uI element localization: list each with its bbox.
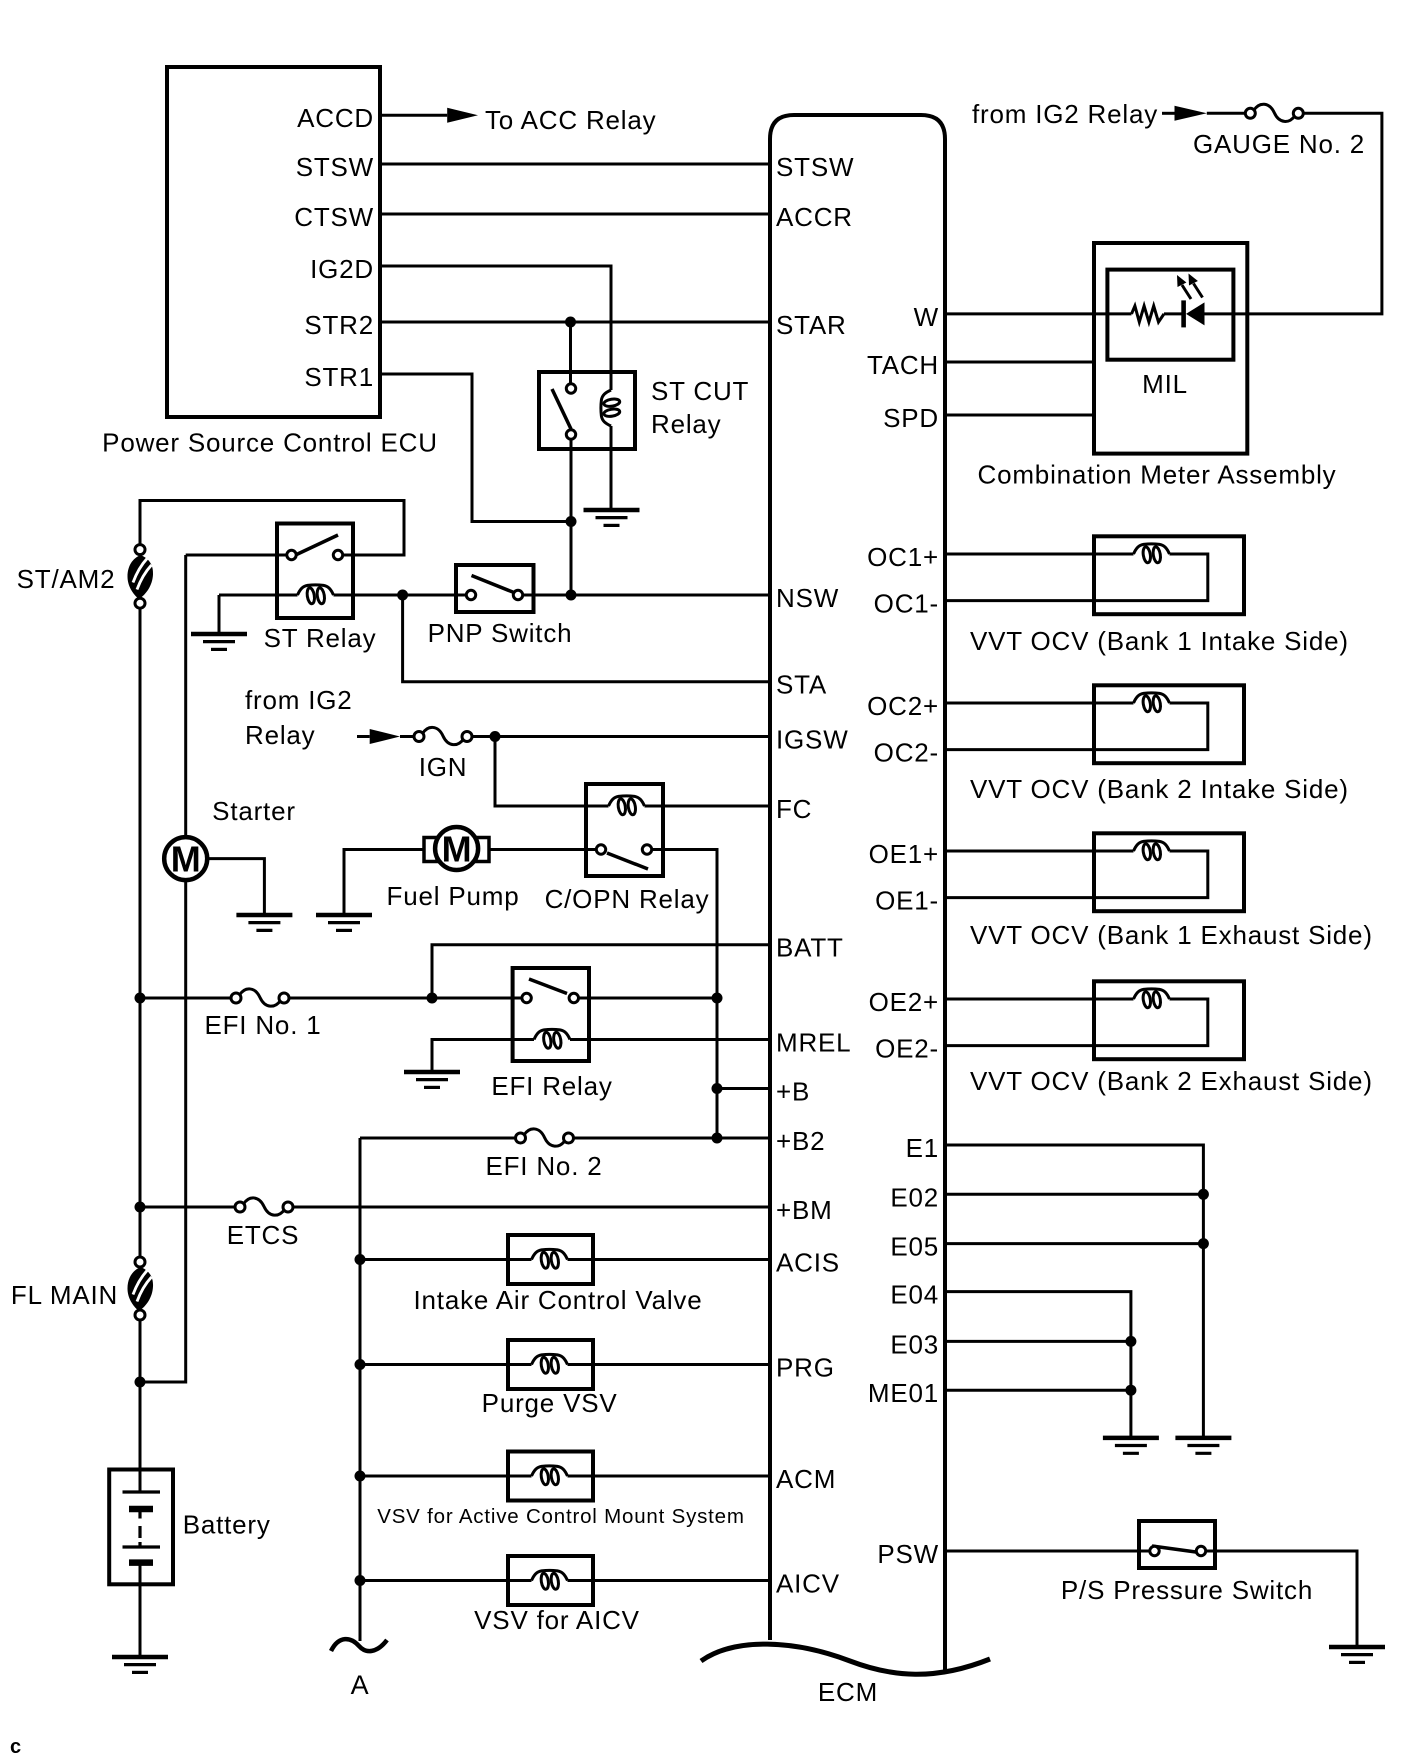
PNP switch contacts [466,576,522,600]
fuse EFI No.2 [516,1129,574,1146]
svg-text:VVT OCV (Bank 2 Intake Side): VVT OCV (Bank 2 Intake Side) [970,774,1349,804]
wire E03 [947,1340,1131,1343]
wire GAUGE fuse to MIL [1205,113,1382,314]
svg-text:BATT: BATT [776,933,844,963]
svg-text:ME01: ME01 [868,1378,939,1408]
wire C/OPN coil to FC [645,805,769,808]
wire ST/AM2 top loop to ST relay switch [140,501,404,556]
wire OE2 loop [947,999,1208,1046]
VVT OCV Bank1 Intake coil [1134,544,1170,563]
wire ACIS line [360,1258,532,1261]
wire main battery line lower [139,1320,142,1470]
wire PRG line [360,1363,532,1366]
Purge VSV coil [532,1354,568,1373]
wire IGSW node to C/OPN coil [495,737,609,807]
svg-text:TACH: TACH [867,350,939,380]
node EFI No.1 left [135,993,146,1004]
ground E1/E02/E05 [1175,1438,1231,1453]
wire ST CUT switch to NSW node [570,435,573,596]
P/S pressure switch box [1139,1521,1215,1568]
wire IGN arrow stub [357,735,370,738]
wire left vertical to battery node [140,555,186,1382]
ST relay coil [298,585,334,604]
svg-text:EFI No. 1: EFI No. 1 [204,1010,321,1040]
svg-text:ECM: ECM [818,1677,878,1707]
svg-text:VSV for AICV: VSV for AICV [474,1605,640,1635]
motor fuel pump M [424,827,489,870]
svg-text:ETCS: ETCS [227,1220,300,1250]
PNP switch box [456,565,534,612]
svg-text:C/OPN Relay: C/OPN Relay [545,884,710,914]
svg-text:EFI No. 2: EFI No. 2 [485,1151,602,1181]
Power Source Control ECU box [167,67,380,417]
MIL box [1107,270,1233,360]
wire E04 [947,1292,1131,1438]
wire node STR2 to ST CUT switch [569,322,572,389]
svg-text:from IG2: from IG2 [245,685,353,715]
svg-text:ACCR: ACCR [776,202,853,232]
wire arrow to GAUGE fuse [1207,112,1246,115]
node NSW junction [566,590,577,601]
ground battery [112,1657,168,1672]
svg-text:OC1+: OC1+ [867,542,939,572]
VVT OCV Bank2 Exhaust coil [1134,989,1170,1008]
wire IGSW line [472,735,768,738]
wire STR2 to STAR [382,321,768,324]
svg-text:PRG: PRG [776,1353,835,1383]
wire main battery line [139,608,142,1257]
svg-text:E05: E05 [890,1232,939,1262]
svg-text:OE2-: OE2- [875,1034,939,1064]
svg-text:Fuel Pump: Fuel Pump [387,881,520,911]
svg-text:STSW: STSW [296,152,374,182]
node ME01 junction [1125,1385,1136,1396]
VVT OCV Bank2 Exhaust box [1094,981,1244,1059]
wire fuel pump left to ground [344,850,424,914]
svg-text:MIL: MIL [1142,369,1188,399]
ground P/S switch [1329,1647,1385,1662]
wire BATT line [432,945,768,998]
svg-text:GAUGE No. 2: GAUGE No. 2 [1193,129,1365,159]
VVT OCV Bank1 Exhaust box [1094,833,1244,911]
wire ME01 [947,1389,1131,1392]
ECM bottom wavy break [701,1644,990,1674]
wire arrow to IGN fuse [400,735,414,738]
wire ST CUT coil to ground [610,426,613,508]
ECM box [770,115,945,1674]
svg-text:ST Relay: ST Relay [264,623,377,653]
node PRG junction [355,1359,366,1370]
svg-text:OC2-: OC2- [874,738,939,768]
SECTION:WIRES [140,113,1382,1655]
svg-text:To ACC Relay: To ACC Relay [485,105,656,135]
wire OC1 loop [947,554,1208,601]
P/S pressure switch contacts [1150,1546,1206,1556]
fuse EFI No.1 [231,989,289,1006]
battery plates [123,1492,161,1563]
Intake Air Control Valve coil [532,1249,568,1268]
Purge VSV box [508,1340,593,1389]
wire OC2 loop [947,703,1208,750]
node IGSW junction [490,731,501,742]
wire TACH [947,361,1092,364]
wire battery bottom to ground [139,1563,142,1656]
svg-text:Power Source Control ECU: Power Source Control ECU [102,428,438,458]
wire AICV line [360,1579,532,1582]
node +B vertical top [712,993,723,1004]
wire E1 [947,1145,1203,1438]
VVT OCV Bank1 Exhaust coil [1134,841,1170,860]
wire SPD [947,414,1092,417]
ground starter [236,915,292,930]
node E02 junction [1198,1189,1209,1200]
wire starter to ground [209,859,264,914]
EFI relay switch [522,979,579,1003]
arrow To ACC Relay [447,108,478,123]
ST CUT relay switch [552,384,576,439]
svg-text:Relay: Relay [245,720,315,750]
ground ST CUT relay [584,510,640,525]
C/OPN relay box [586,784,663,876]
EFI relay box [513,968,589,1061]
svg-text:VVT OCV (Bank 1 Intake Side): VVT OCV (Bank 1 Intake Side) [970,626,1349,656]
resistor MIL [1132,306,1165,322]
wire STA branch [403,595,768,682]
wire +B line [717,1087,768,1090]
fusible link ST/AM2 [128,545,154,609]
node FL MAIN bottom junction [135,1377,146,1388]
svg-text:IGSW: IGSW [776,725,849,755]
svg-text:E04: E04 [890,1280,939,1310]
node STR2/ST CUT junction [565,317,576,328]
wire P/S switch to ground [1201,1551,1357,1646]
node E03 junction [1125,1336,1136,1347]
fuse ETCS [235,1198,293,1215]
svg-text:E03: E03 [890,1329,939,1359]
svg-text:SPD: SPD [883,403,939,433]
svg-text:+B: +B [776,1077,810,1107]
svg-text:STSW: STSW [776,152,854,182]
node ST relay coil/STA junction [397,590,408,601]
wire CTSW to ACCR [382,213,768,216]
ground ST relay [191,634,247,649]
wire E05 [947,1242,1203,1245]
ST CUT relay box [539,372,635,449]
svg-text:P/S Pressure Switch: P/S Pressure Switch [1061,1575,1313,1605]
svg-text:STAR: STAR [776,310,847,340]
svg-text:A: A [351,1670,370,1700]
svg-text:VVT OCV (Bank 1 Exhaust Side): VVT OCV (Bank 1 Exhaust Side) [970,920,1373,950]
LED MIL [1164,274,1205,328]
wire line A vertical [359,1138,362,1641]
svg-text:STR2: STR2 [304,310,374,340]
wire EFI relay coil to MREL [570,1038,768,1041]
svg-text:OC1-: OC1- [874,589,939,619]
svg-text:ST CUT: ST CUT [651,376,749,406]
wire W to resistor [947,312,1132,315]
ST CUT relay coil [601,390,620,426]
VSV for AICV coil [532,1570,568,1589]
svg-text:W: W [914,302,939,332]
Combination Meter Assembly box [1094,243,1247,454]
svg-text:Purge VSV: Purge VSV [482,1388,618,1418]
arrow from IG2 Relay (GAUGE) [1175,106,1207,121]
wire EFI No.2 line [360,1137,521,1140]
VVT OCV Bank1 Intake box [1094,536,1244,614]
node ETCS junction [135,1202,146,1213]
svg-text:+B2: +B2 [776,1126,825,1156]
ground E04/E03/ME01 [1103,1438,1159,1453]
node E05 junction [1198,1238,1209,1249]
fuse IGN [414,727,472,744]
svg-text:CTSW: CTSW [294,202,374,232]
wire IG2D to ST CUT relay coil [382,266,611,390]
svg-text:Combination Meter Assembly: Combination Meter Assembly [978,459,1337,489]
ground fuel pump [316,915,372,930]
svg-text:VSV for Active Control Mount S: VSV for Active Control Mount System [377,1505,745,1528]
svg-text:c: c [10,1736,21,1758]
wire ST relay coil ground stem [218,595,221,634]
svg-text:AICV: AICV [776,1569,840,1599]
wire ACCD to arrow [382,114,447,117]
VSV for AICV box [508,1556,593,1605]
wire C/OPN switch to +B vertical [647,850,717,1139]
wire OE1 loop [947,851,1208,898]
svg-text:NSW: NSW [776,583,839,613]
svg-text:OE1-: OE1- [875,886,939,916]
svg-text:PSW: PSW [877,1539,939,1569]
svg-text:ACIS: ACIS [776,1248,840,1278]
svg-text:ST/AM2: ST/AM2 [17,564,116,594]
wire from IG2 Relay top stub [1162,112,1175,115]
C/OPN relay switch [596,845,651,869]
svg-text:FL MAIN: FL MAIN [11,1280,118,1310]
arrow from IG2 Relay (IGN) [370,729,400,744]
svg-text:Intake Air Control Valve: Intake Air Control Valve [414,1285,703,1315]
wire battery top [139,1470,142,1492]
svg-text:M: M [442,829,472,870]
svg-text:IGN: IGN [419,752,468,782]
wire NSW line [518,594,768,597]
node BATT junction [427,993,438,1004]
wire fuel pump to C/OPN switch [489,848,601,851]
wire STR1 to node [382,374,571,522]
VVT OCV Bank2 Intake box [1094,685,1244,763]
svg-text:OE1+: OE1+ [869,839,939,869]
svg-text:PNP Switch: PNP Switch [428,618,573,648]
VVT OCV Bank2 Intake coil [1134,693,1170,712]
svg-text:E1: E1 [906,1133,939,1163]
node +B2 junction [712,1133,723,1144]
svg-text:STR1: STR1 [304,362,374,392]
motor starter M [164,837,207,880]
ST relay box [277,524,353,619]
svg-text:OE2+: OE2+ [869,987,939,1017]
node ACM junction [355,1471,366,1482]
wire PSW line [947,1550,1155,1553]
svg-text:VVT OCV (Bank 2 Exhaust Side): VVT OCV (Bank 2 Exhaust Side) [970,1066,1373,1096]
node STR1/ST CUT junction [566,516,577,527]
svg-text:Battery: Battery [183,1510,271,1540]
svg-text:STA: STA [776,670,827,700]
wire EFI relay coil ground [432,1040,534,1073]
wire E02 [947,1193,1203,1196]
svg-text:EFI Relay: EFI Relay [491,1071,612,1101]
VSV for ACM coil [532,1466,568,1485]
svg-text:IG2D: IG2D [310,254,374,284]
wire ETCS +BM line [140,1206,240,1209]
C/OPN relay coil [609,796,645,815]
svg-text:from IG2 Relay: from IG2 Relay [972,99,1158,129]
node +B junction [712,1083,723,1094]
wire STSW net [382,163,768,166]
svg-text:MREL: MREL [776,1028,851,1058]
ground EFI relay [404,1072,460,1087]
fuse GAUGE No.2 [1245,104,1303,121]
wire EFI No.1 fuse to EFI relay [285,997,527,1000]
fusible link FL MAIN [128,1257,154,1320]
svg-text:Relay: Relay [651,409,721,439]
wire ACM line [360,1475,532,1478]
svg-text:FC: FC [776,794,812,824]
EFI relay coil [534,1029,570,1048]
node ACIS junction [355,1254,366,1265]
svg-text:E02: E02 [890,1182,939,1212]
svg-text:+BM: +BM [776,1195,833,1225]
wavy break A [331,1639,387,1651]
svg-text:OC2+: OC2+ [867,691,939,721]
VSV for ACM box [508,1452,593,1501]
svg-text:M: M [171,839,201,880]
svg-text:Starter: Starter [212,796,296,826]
wire ST relay switch left to vertical [186,554,292,557]
svg-text:ACM: ACM [776,1464,836,1494]
ST relay switch [287,535,343,560]
battery box [109,1470,173,1585]
Intake Air Control Valve box [508,1235,593,1284]
wire ST relay coil line to PNP [219,594,298,597]
svg-text:ACCD: ACCD [297,103,374,133]
node AICV junction [355,1575,366,1586]
wire EFI relay switch to +B vertical [574,997,717,1000]
wire EFI No.1 line left [140,997,236,1000]
